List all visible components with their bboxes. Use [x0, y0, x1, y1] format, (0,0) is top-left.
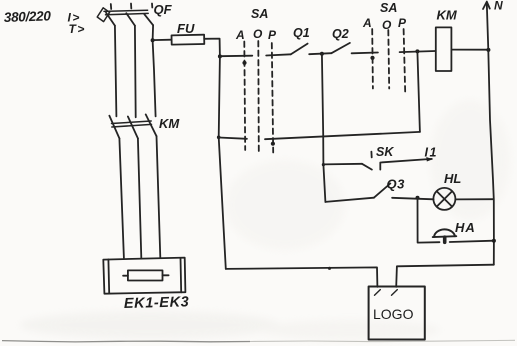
wire phase L2 KM to EK: [138, 138, 141, 257]
selector SA1 position line A: [243, 42, 246, 151]
svg-text:HA: HA: [455, 220, 476, 235]
wire Q1 to Q2: [309, 53, 331, 54]
svg-text:380/220: 380/220: [4, 8, 52, 25]
svg-text:SA: SA: [380, 1, 397, 15]
svg-text:EK1-EK3: EK1-EK3: [124, 294, 190, 312]
junction SA2 contact A: [370, 56, 374, 60]
junction HA to N: [492, 239, 496, 243]
selector SA1 position line P: [272, 43, 273, 153]
svg-text:SK: SK: [376, 145, 394, 159]
wire Q3 row: [325, 198, 374, 202]
wire HA branch: [418, 198, 440, 243]
svg-text:Q1: Q1: [293, 26, 310, 40]
junction bus bottom row: [217, 136, 221, 140]
selector SA2 position line O: [387, 30, 390, 89]
wire phase L2 QF to KM: [134, 26, 137, 118]
controller LOGO box: [369, 287, 425, 340]
wire Q3 to HL: [392, 198, 433, 200]
svg-text:Q2: Q2: [332, 27, 349, 41]
junction control bus: [218, 54, 222, 58]
phase L3 supply stub: [151, 4, 153, 8]
wire bell to N: [450, 241, 494, 242]
bottom bus wire to LOGO: [226, 267, 378, 287]
junction Q1 output: [320, 52, 324, 56]
contactor coil KM: [436, 27, 452, 71]
svg-text:N: N: [494, 0, 503, 13]
bell HA: [433, 229, 457, 242]
junction FU tap on L3: [151, 38, 155, 42]
neutral bus wire to LOGO: [396, 265, 494, 287]
svg-text:A: A: [235, 28, 245, 42]
fuse FU: [172, 35, 205, 45]
junction SA2 output: [415, 49, 419, 53]
wire phase L3 QF to KM: [153, 25, 156, 116]
circuit breaker QF: [97, 8, 153, 26]
svg-text:FU: FU: [177, 21, 195, 36]
svg-text:Q3: Q3: [387, 177, 406, 192]
lamp HL: [433, 188, 455, 210]
wire phase L1 KM to EK: [119, 138, 124, 258]
wire HL to N: [455, 198, 493, 200]
riser wire SA1 bottom row to Q2 output: [417, 52, 420, 132]
LOGO terminal 1: [375, 290, 381, 296]
wire SA1 top row to Q1: [266, 54, 291, 55]
switch SK: [323, 152, 431, 170]
wire SA1 top row left: [220, 55, 252, 58]
wire SA2 to KM coil: [400, 51, 436, 52]
svg-text:KM: KM: [159, 116, 180, 131]
switch Q2 blade: [331, 43, 350, 53]
svg-text:O: O: [253, 27, 263, 41]
neutral line N: [487, 4, 494, 265]
switch Q3 blade: [374, 184, 390, 198]
junction SA1 contact P: [271, 142, 275, 146]
wire SA1 bottom row left: [219, 138, 247, 139]
contactor KM main contacts: [109, 114, 156, 138]
heater box EK1-EK3: [103, 258, 185, 294]
svg-text:KM: KM: [437, 8, 458, 23]
branch wire Q1 output down to Q3: [322, 54, 326, 202]
svg-text:O: O: [382, 18, 392, 32]
svg-text:A: A: [362, 16, 372, 30]
phase L1 supply stub: [110, 4, 112, 9]
switch Q1 blade: [291, 44, 308, 55]
svg-text:QF: QF: [154, 2, 173, 17]
selector SA2 position line A: [371, 29, 374, 89]
svg-text:I1: I1: [425, 146, 438, 160]
wire phase L3 KM to EK: [157, 136, 161, 257]
phase L2 supply stub: [130, 4, 132, 9]
arrow I1: [426, 157, 433, 162]
svg-text:LOGO: LOGO: [373, 306, 414, 322]
wire L3 to fuse: [153, 39, 172, 41]
junction SA1 contact A: [242, 61, 246, 65]
wire fuse to bus corner: [204, 39, 220, 57]
wire KM coil to N: [451, 49, 488, 51]
svg-text:P: P: [268, 28, 277, 42]
svg-text:P: P: [398, 16, 407, 30]
junction bottom bus: [328, 267, 331, 270]
svg-text:HL: HL: [444, 171, 461, 186]
wire SA1 bottom row to riser: [265, 132, 420, 139]
left control bus wire: [219, 56, 226, 269]
LOGO terminal 2: [392, 290, 398, 296]
selector SA1 position line O: [257, 41, 260, 153]
selector SA2 position line P: [404, 29, 406, 93]
junction SK tap: [322, 163, 325, 166]
wire Q2 to SA2: [352, 52, 378, 55]
arrow N: [483, 2, 490, 9]
svg-text:T>: T>: [69, 22, 86, 36]
wire phase L1 QF to KM: [115, 26, 117, 117]
svg-text:SA: SA: [251, 7, 268, 21]
junction HA branch: [416, 196, 420, 200]
junction KM coil N: [486, 48, 490, 52]
